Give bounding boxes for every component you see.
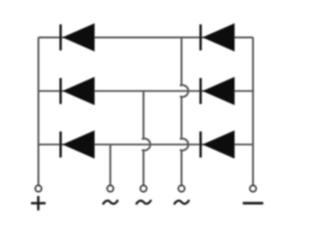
- wire: AC phase L2 vertical from row 2 with crossover hop at row 3: [142, 91, 150, 185]
- label: tilde at AC phase L3: [174, 200, 189, 205]
- diode D3 middle-left, cathode bar: [59, 78, 61, 104]
- wire: left DC plus bus vertical: [37, 37, 39, 185]
- label: minus sign at DC minus terminal: [243, 202, 263, 205]
- diode D1 top-left, cathode bar: [59, 24, 61, 50]
- wire: row 3 horizontal (bottom, cathode row D5/D6): [38, 144, 253, 146]
- wire: right DC minus bus vertical: [252, 37, 254, 185]
- diode D6 bottom-right, triangle: [202, 130, 234, 158]
- diode D1 top-left, triangle: [62, 23, 94, 51]
- wire: row 1 horizontal (top, cathode row D1/D2): [38, 36, 253, 38]
- terminal circle: AC phase L1: [107, 186, 113, 192]
- terminal circle: AC phase L2: [141, 186, 147, 192]
- diode D2 top-right, cathode bar: [199, 24, 201, 50]
- label: tilde at AC phase L1: [103, 200, 118, 205]
- terminal circle: DC plus output: [35, 186, 41, 192]
- wire: row 2 horizontal (middle, cathode row D3/D4): [38, 90, 253, 92]
- diode D5 bottom-left, cathode bar: [59, 132, 61, 158]
- wire: AC phase L1 vertical from row 3 to terminal: [109, 145, 111, 186]
- diode D4 middle-right, triangle: [202, 77, 234, 105]
- terminal circle: AC phase L3: [179, 186, 185, 192]
- diode D5 bottom-left, triangle: [62, 130, 94, 158]
- diode D4 middle-right, cathode bar: [199, 78, 201, 104]
- label: tilde at AC phase L2: [136, 200, 151, 205]
- wire: AC phase L3 vertical from row 1 with crossover hops at rows 2 and 3: [180, 37, 188, 185]
- terminal circle: DC minus output: [250, 186, 256, 192]
- diode D3 middle-left, triangle: [62, 77, 94, 105]
- label: plus sign at DC plus terminal: [31, 196, 46, 210]
- diode D6 bottom-right, cathode bar: [199, 132, 201, 158]
- diode D2 top-right, triangle: [202, 23, 234, 51]
